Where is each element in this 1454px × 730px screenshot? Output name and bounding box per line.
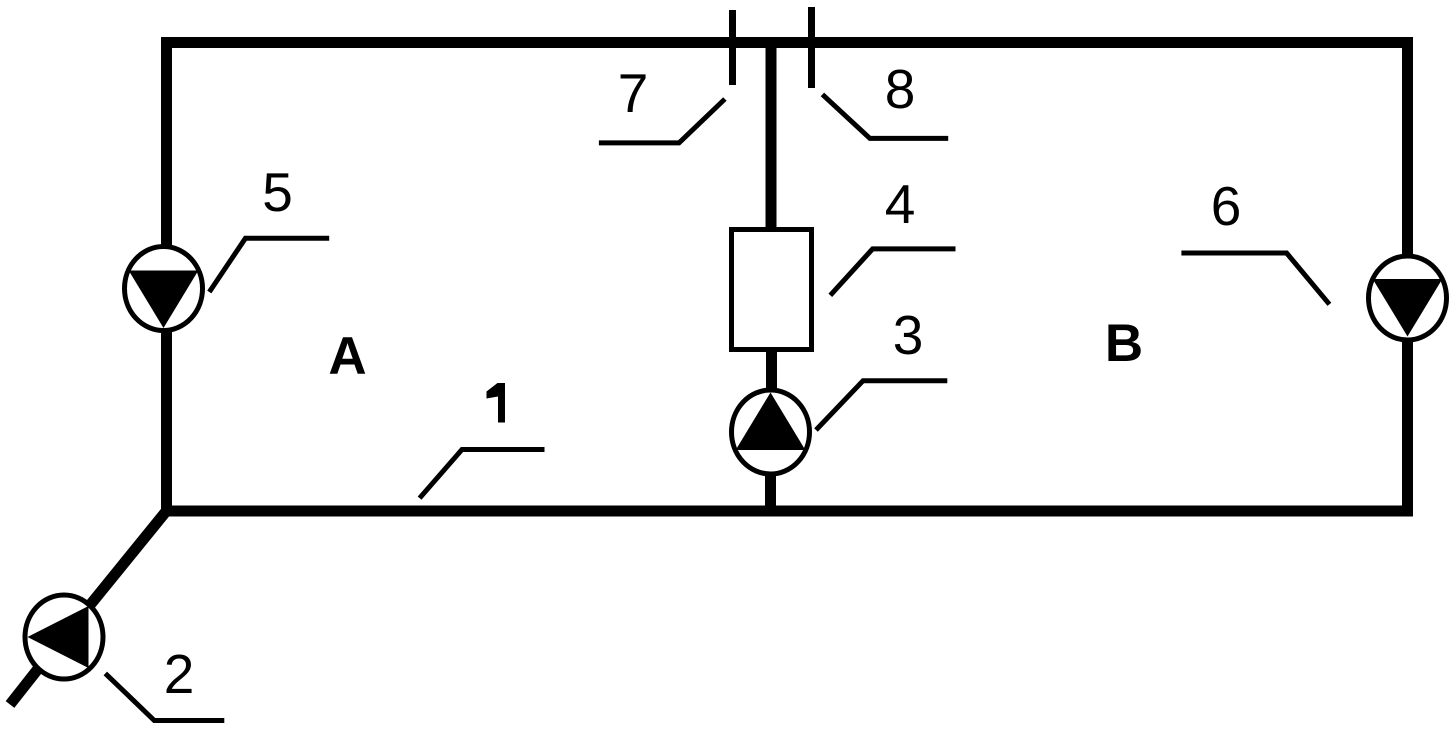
- pump 5: triangle pointing down: [129, 271, 199, 329]
- pump 3: circle: [732, 390, 810, 474]
- svg-text:B: B: [1105, 314, 1143, 373]
- leader line for label 6: [1181, 253, 1329, 304]
- wire: diagonal suction pipe stub below pump 2: [10, 669, 38, 704]
- leader line for label 4: [830, 249, 955, 295]
- wire: top header pipe: [161, 37, 1413, 48]
- pump 6: triangle pointing down: [1373, 279, 1443, 337]
- svg-text:3: 3: [893, 304, 924, 366]
- wire: left riser pipe: [161, 37, 172, 516]
- pump 5: circle: [125, 247, 203, 331]
- leader line for label 1: [420, 450, 545, 499]
- svg-text:2: 2: [164, 643, 195, 705]
- label 1: [487, 383, 506, 423]
- svg-text:4: 4: [885, 173, 916, 235]
- apparatus 4: rectangle: [732, 230, 812, 350]
- pump 2: triangle pointing left: [28, 606, 89, 668]
- wire: middle branch pipe below pump 3: [765, 473, 776, 513]
- wire: middle branch pipe between apparatus 4 and pump 3: [766, 348, 777, 394]
- leader line for label 3: [816, 381, 947, 430]
- svg-text:A: A: [328, 327, 366, 386]
- leader line for label 7: [599, 99, 725, 143]
- node 7: tick mark on header line: [729, 10, 736, 85]
- svg-text:8: 8: [885, 58, 916, 120]
- pump 3: triangle pointing up: [736, 393, 806, 451]
- wire: right riser pipe: [1402, 37, 1413, 516]
- leader line for label 8: [822, 94, 948, 138]
- wire: middle branch pipe upper segment (top header to apparatus 4): [766, 42, 777, 230]
- leader line for label 5: [209, 238, 329, 292]
- wire: diagonal suction pipe from bottom-left corner to pump 2: [90, 509, 168, 605]
- svg-text:5: 5: [262, 161, 293, 223]
- wire: bottom return pipe (1): [161, 506, 1413, 517]
- svg-text:7: 7: [618, 62, 649, 124]
- pump 2: circle: [25, 595, 103, 679]
- svg-text:6: 6: [1211, 175, 1242, 237]
- leader line for label 2: [105, 673, 224, 720]
- node 8: tick mark on header line: [808, 7, 815, 88]
- pump 6: circle: [1369, 256, 1447, 340]
